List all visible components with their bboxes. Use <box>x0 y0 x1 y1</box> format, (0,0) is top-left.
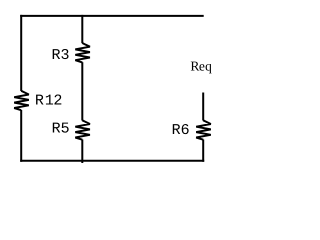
label R5 <box>53 123 69 133</box>
wire left vertical lower <box>20 110 22 162</box>
label R6 <box>173 124 189 134</box>
label R3 <box>53 49 69 59</box>
wire bottom horizontal <box>20 160 204 162</box>
wire right branch upper lead <box>202 93 204 121</box>
label R12 <box>36 94 61 104</box>
resistor R3 <box>75 43 90 62</box>
resistor R12 <box>14 91 29 110</box>
wire middle vertical between R3 and R5 <box>81 62 83 120</box>
wire left vertical upper <box>20 15 22 91</box>
wire middle vertical lower stub <box>81 140 83 164</box>
wire right branch lower lead <box>202 140 204 162</box>
resistor R6 <box>196 120 211 139</box>
wire top horizontal <box>20 15 204 17</box>
label Req (equivalent resistance node) <box>191 62 212 74</box>
wire middle vertical upper <box>81 15 83 43</box>
resistor R5 <box>75 120 90 139</box>
